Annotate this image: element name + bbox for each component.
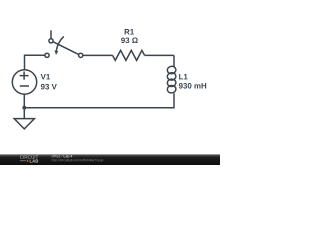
label V1 [41,74,50,79]
footer title text: effilp1 / Lab 4 [52,155,73,158]
wire resistor R1 to inductor top corner [145,54,174,56]
footer bar [0,154,220,165]
wire V1 bottom to ground [23,94,25,118]
wire V1 top to switch left terminal [25,55,45,69]
label R1 [125,29,134,34]
logo lightning bolt [26,159,29,163]
switch SW1 [45,30,83,57]
ground [14,119,34,129]
node junction at V1 bottom [22,106,26,110]
footer url text [52,159,104,162]
logo underline [20,160,26,162]
logo word CIRCUIT [20,155,38,158]
CircuitLab logo [20,155,38,162]
wire switch right terminal to resistor R1 [83,54,113,56]
wire inductor bottom rail to junction [24,93,174,108]
value 930 mH [179,83,206,89]
voltage source V1 [12,70,36,94]
label L1 [179,74,187,79]
value 93 V [41,84,57,90]
logo word LAB [30,159,39,162]
inductor L1 [167,55,177,93]
resistor R1 [113,50,145,60]
value 93 Ohm [121,37,138,43]
